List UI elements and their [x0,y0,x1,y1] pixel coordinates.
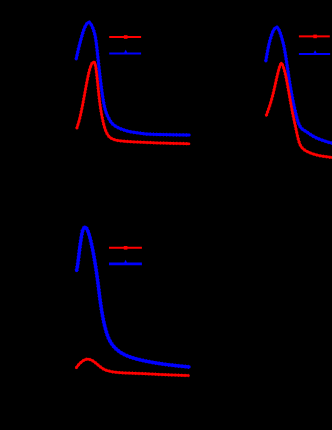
curve blue bottom-left [77,227,189,367]
legend line red top-right [299,35,330,39]
legend line blue top-left [109,50,141,55]
curve blue top-left [76,22,189,135]
legend line blue bottom-left [109,260,142,265]
curve red bottom-left [76,359,188,375]
curve red top-right [266,63,332,158]
legend line red bottom-left [109,246,142,250]
legend line blue top-right [299,50,330,55]
curve blue top-right [266,27,332,143]
curve red top-left [77,62,189,144]
legend line red top-left [109,35,141,39]
